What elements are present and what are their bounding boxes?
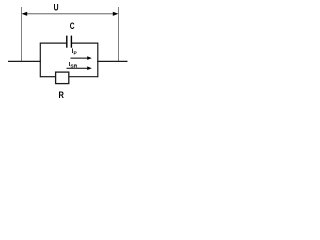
current arrow Ip [71, 56, 92, 60]
current arrow IsR [67, 66, 92, 70]
wire: right branch vertical (node B) [97, 43, 99, 78]
voltage arrow U (double-headed dimension arrow) [22, 12, 119, 16]
wire: resistor branch left segment [40, 76, 55, 78]
svg-text:R: R [59, 90, 64, 101]
resistor R (box) [56, 72, 69, 84]
svg-text:ISR: ISR [69, 62, 78, 68]
svg-text:U: U [54, 3, 59, 14]
svg-text:C: C [70, 21, 75, 32]
wire: left main lead [8, 60, 41, 62]
wire: right main lead [97, 60, 127, 62]
wire: capacitor branch left segment [40, 42, 66, 44]
wire: left extension line for U [20, 7, 22, 61]
wire: resistor branch right segment [69, 76, 98, 78]
wire: capacitor branch right segment [72, 42, 98, 44]
wire: right extension line for U [118, 7, 120, 61]
capacitor C (plates) [67, 36, 72, 48]
wire: left branch vertical (node A) [39, 43, 41, 78]
